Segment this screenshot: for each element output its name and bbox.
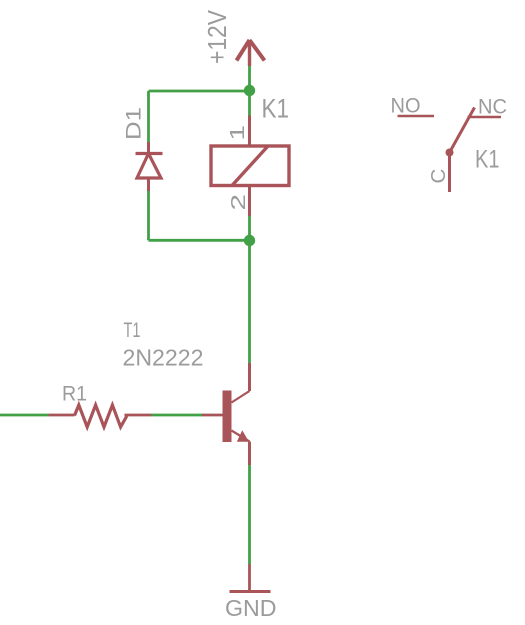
svg-text:C: C xyxy=(427,169,450,184)
svg-text:K1: K1 xyxy=(262,94,290,124)
svg-text:1: 1 xyxy=(227,125,249,141)
svg-text:2: 2 xyxy=(228,194,250,211)
svg-text:NO: NO xyxy=(391,94,421,118)
svg-text:K1: K1 xyxy=(475,146,500,174)
svg-text:GND: GND xyxy=(225,595,277,621)
svg-text:NC: NC xyxy=(478,95,507,119)
svg-text:+12V: +12V xyxy=(202,9,232,64)
svg-text:R1: R1 xyxy=(62,382,87,406)
svg-text:T1: T1 xyxy=(124,319,141,342)
svg-text:2N2222: 2N2222 xyxy=(123,345,204,371)
svg-text:D1: D1 xyxy=(122,107,146,140)
